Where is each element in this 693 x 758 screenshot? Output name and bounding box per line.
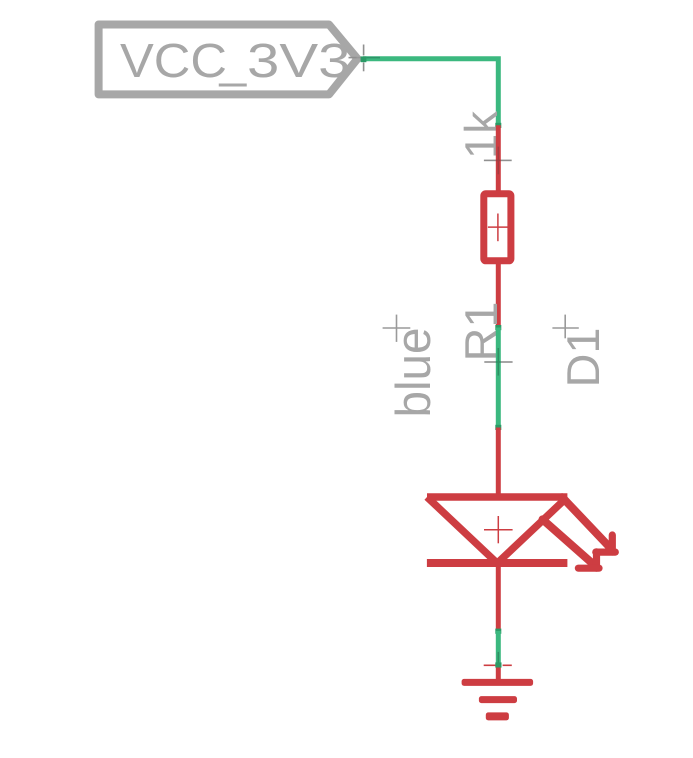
ground symbol bar 1 [462, 679, 533, 686]
cross at 1k origin [484, 147, 512, 175]
junction at flag tip [361, 56, 367, 62]
svg-text:_: _ [219, 35, 248, 88]
resistor R1 body [484, 194, 511, 261]
supply flag VCC_3V3 [99, 25, 358, 95]
svg-text:blue: blue [387, 328, 441, 418]
svg-text:VCC: VCC [120, 35, 227, 88]
GND pin cross [484, 652, 512, 665]
junction R1 pin2 / net [495, 325, 501, 330]
ground symbol bar 2 [479, 696, 517, 703]
resistor origin cross [488, 214, 508, 242]
junction at R1 pin 1 [495, 123, 501, 128]
LED origin cross [484, 516, 513, 543]
LED light arrow 1 (upper) [562, 497, 615, 552]
ground symbol stem [496, 668, 501, 682]
junction cathode / net GND [495, 629, 501, 634]
ground symbol bar 3 [486, 712, 509, 720]
cross at blue origin [383, 315, 411, 342]
wire net GND [496, 631, 501, 666]
svg-text:3V3: 3V3 [247, 35, 351, 88]
wire net N$1 [496, 328, 501, 428]
cross at D1 origin [552, 315, 578, 339]
wire net VCC (horizontal + vertical) [363, 59, 498, 126]
node cross at flag pin [349, 45, 381, 72]
LED D1 cathode bar [427, 559, 568, 567]
LED D1 triangle [427, 497, 567, 563]
cross at R1 origin [484, 348, 512, 376]
junction net / GND pin [495, 662, 501, 667]
pin D1 cathode [496, 563, 501, 631]
pin D1 anode [496, 428, 501, 498]
pin R1 bottom [496, 261, 501, 327]
LED light arrow 2 (lower) [543, 519, 600, 568]
pin R1 top [496, 125, 501, 193]
junction net / D1 anode [495, 425, 501, 430]
